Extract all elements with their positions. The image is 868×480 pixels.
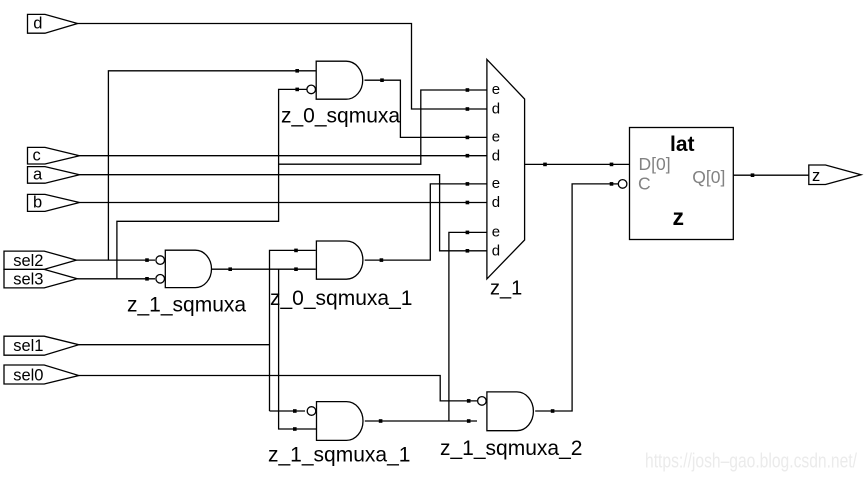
mux pin label d3 (492, 194, 500, 211)
svg-text:d: d (492, 242, 500, 259)
svg-text:sel0: sel0 (13, 366, 43, 384)
wire latch C pin stub (612, 183, 619, 185)
junction dot net z_1_sqmuxa_1 at z_1_sqmuxa_2 pin B (467, 419, 471, 423)
junction dot z_0_sqmuxa_1 output lead (380, 258, 384, 262)
AND gate z_0_sqmuxa_1 (316, 241, 363, 279)
svg-text:e: e (492, 175, 500, 192)
input port sel2 (4, 251, 76, 269)
junction dot net mux output at latch D pin (610, 163, 614, 167)
svg-text:sel1: sel1 (13, 337, 43, 355)
input port a (28, 167, 80, 184)
wire mux pin e3 stub (468, 183, 487, 185)
svg-text:Q[0]: Q[0] (692, 167, 725, 187)
latch pin label C (638, 173, 651, 193)
gate label z_1_sqmuxa_1 (268, 444, 410, 467)
svg-text:a: a (33, 166, 43, 184)
wire latch D pin stub (612, 163, 630, 165)
inversion bubble latch C input (618, 180, 627, 189)
junction dot z_1_sqmuxa_2 output lead (551, 409, 555, 413)
junction dot mux output lead (543, 163, 547, 167)
multiplexer z_1 (487, 59, 525, 279)
input port sel1 (4, 336, 79, 355)
input port b (28, 194, 80, 211)
svg-text:z_0_sqmuxa_1: z_0_sqmuxa_1 (270, 287, 412, 310)
input port c (28, 147, 80, 164)
wire net z_0_sqmuxa output to mux pin e2 (365, 80, 467, 137)
wire net z_1_sqmuxa_2 output: right then up at x=572.1 to latch C pin (535, 184, 610, 411)
svg-text:z_1_sqmuxa_1: z_1_sqmuxa_1 (268, 444, 410, 467)
mux pin label e3 (492, 175, 500, 192)
svg-text:z_1: z_1 (490, 277, 522, 299)
NAND gate z_1_sqmuxa_1 (input A inverted) (317, 402, 364, 441)
inversion bubble z_1_sqmuxa input A (156, 256, 165, 265)
gate label z_0_sqmuxa_1 (270, 287, 412, 310)
wire net z_1_sqmuxa_1 output: right to z_1_sqmuxa_2 input B, branch up at x=448.9 to mux pin e4 (365, 232, 477, 421)
wire mux pin e2 stub (468, 136, 487, 138)
wire net latch Q output to port z (733, 174, 809, 176)
svg-text:https://josh–gao.blog.csdn.net: https://josh–gao.blog.csdn.net/ (645, 451, 857, 473)
inversion bubble z_1_sqmuxa_1 input A (307, 407, 316, 416)
svg-text:lat: lat (670, 133, 695, 156)
output port z (809, 165, 861, 185)
wire mux pin d1 stub (468, 108, 487, 110)
wire net sel1: port sel1 right to x=269.5, up to z_0_sqmuxa_1 input A, down to z_1_sqmuxa_1 input A (79, 250, 316, 411)
port d label (33, 14, 42, 32)
latch pin label Q[0] (692, 167, 725, 187)
svg-text:e: e (492, 128, 500, 145)
wire net b: port b to mux pin d3 (80, 202, 487, 204)
port sel2 label (13, 252, 43, 270)
watermark (645, 451, 857, 473)
svg-text:d: d (492, 101, 500, 118)
wire mux pin e4 stub (468, 231, 487, 233)
junction dot net c at mux pin d2 (466, 154, 470, 158)
junction dot net a at mux pin d4 (466, 249, 470, 253)
junction dot z_1_sqmuxa output lead (228, 267, 232, 271)
svg-text:z: z (812, 167, 820, 185)
svg-text:d: d (33, 14, 42, 32)
svg-text:C: C (638, 173, 651, 193)
wire net a: port a right, down at x=439.6, to mux pin d4 (80, 175, 467, 251)
port sel0 label (13, 366, 43, 384)
junction dot z_1_sqmuxa_1 output lead (379, 419, 383, 423)
port b label (33, 194, 42, 212)
svg-text:z_0_sqmuxa: z_0_sqmuxa (281, 104, 400, 127)
inversion bubble z_0_sqmuxa input B (307, 85, 316, 94)
svg-text:c: c (33, 147, 41, 165)
mux pin label d4 (492, 242, 500, 259)
port sel1 label (13, 337, 43, 355)
port a label (33, 166, 43, 184)
latch pin label D[0] (639, 154, 671, 174)
junction dot net sel2 at z_0_sqmuxa pin A (295, 69, 299, 73)
junction dot net z_1_sqmuxa_2 at latch C pin (610, 182, 614, 186)
mux pin label d1 (492, 101, 500, 118)
svg-text:sel2: sel2 (13, 252, 43, 270)
junction dot net sel3 at mux pin e1 (466, 88, 470, 92)
svg-text:z_1_sqmuxa: z_1_sqmuxa (127, 294, 246, 317)
junction dot net sel0 at z_1_sqmuxa_2 pin A (467, 399, 471, 403)
junction dot net d at mux pin d1 (466, 107, 470, 111)
junction dot net sel3 at z_0_sqmuxa pin B (295, 88, 299, 92)
gate label z_1_sqmuxa (127, 294, 246, 317)
mux pin label e1 (492, 81, 500, 98)
svg-text:b: b (33, 194, 42, 212)
AND gate z_1_sqmuxa_2 (input A inverted) (487, 392, 534, 431)
wire net sel2: port sel2 to gate z_1_sqmuxa input A, branch up at x=108.4 to z_0_sqmuxa input A (76, 71, 315, 260)
junction dot net z_1_sqmuxa_1 at mux pin e4 (466, 231, 470, 235)
junction dot z_0_sqmuxa output lead (380, 78, 384, 82)
junction dot net z_0_sqmuxa at mux pin e2 (466, 136, 470, 140)
input port sel3 (4, 269, 77, 288)
junction dot net sel1 at z_1_sqmuxa_1 pin A (293, 409, 297, 413)
wire mux pin d4 stub (468, 250, 487, 252)
NAND gate z_1_sqmuxa (both inputs inverted) (165, 250, 211, 287)
port sel3 label (13, 271, 43, 289)
junction dot net z_1_sqmuxa at z_1_sqmuxa_1 pin B (293, 427, 297, 431)
junction dot net sel2 at z_1_sqmuxa pin A (145, 258, 149, 262)
latch title label lat (670, 133, 695, 156)
gate label z_1_sqmuxa_2 (440, 437, 582, 460)
svg-text:e: e (492, 81, 500, 98)
wire mux pin e1 stub (468, 89, 487, 91)
inversion bubble z_1_sqmuxa_2 input A (478, 397, 487, 406)
wire net sel3: port sel3 to z_1_sqmuxa input B, branch up at x=116.9 over to x=278.6 up to z_0_sqmuxa input B, side branch at y=164.2 to mux pin e1 (77, 89, 466, 278)
junction dot net sel3 at z_1_sqmuxa pin B (145, 277, 149, 281)
junction dot net b at mux pin d3 (466, 201, 470, 205)
gate label z_0_sqmuxa (281, 104, 400, 127)
svg-text:D[0]: D[0] (639, 154, 671, 174)
input port d (28, 14, 78, 33)
svg-text:d: d (492, 147, 500, 164)
wire net d: port d to mux pin d1 (78, 24, 467, 110)
latch instance label z (673, 204, 685, 230)
svg-text:e: e (492, 223, 500, 240)
mux pin label e4 (492, 223, 500, 240)
input port sel0 (4, 365, 79, 384)
junction dot latch Q output lead (751, 173, 755, 177)
mux pin label e2 (492, 128, 500, 145)
port c label (33, 147, 41, 165)
mux label z_1 (490, 277, 522, 299)
junction dot net z_1_sqmuxa at z_0_sqmuxa_1 pin B (294, 267, 298, 271)
junction dot net z_0_sqmuxa_1 at mux pin e3 (466, 182, 470, 186)
junction dot net sel1 at z_0_sqmuxa_1 pin A (294, 249, 298, 253)
svg-text:d: d (492, 194, 500, 211)
wire net c: port c to mux pin d2 (80, 155, 487, 157)
svg-text:z_1_sqmuxa_2: z_1_sqmuxa_2 (440, 437, 582, 460)
wire net z_0_sqmuxa_1 output up to mux pin e3 (365, 184, 467, 260)
svg-text:sel3: sel3 (13, 271, 43, 289)
latch lat (630, 128, 734, 240)
mux pin label d2 (492, 147, 500, 164)
AND gate z_0_sqmuxa (input B inverted) (316, 61, 363, 99)
wire net mux z_1 output to latch D pin (525, 163, 610, 165)
port z label (812, 167, 820, 185)
wire net sel0: port sel0 right to x=440.2, down to z_1_sqmuxa_2 input A (79, 376, 477, 401)
inversion bubble z_1_sqmuxa input B (156, 275, 165, 284)
svg-text:z: z (673, 204, 685, 230)
wire net z_1_sqmuxa output: to z_0_sqmuxa_1 input B, branch down at x=278.6 to z_1_sqmuxa_1 input B (212, 269, 317, 429)
